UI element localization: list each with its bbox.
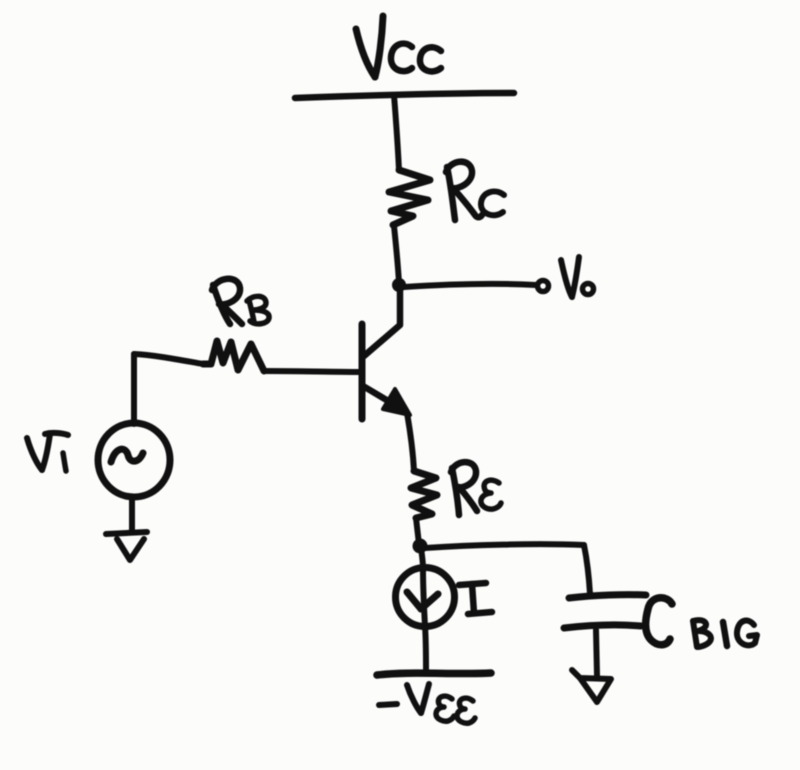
label Rc [446, 162, 504, 220]
wire RE to node E [416, 518, 419, 544]
ground under Vi [106, 532, 147, 560]
wire current source to -VEE rail [425, 626, 426, 670]
transistor Q1 [362, 284, 410, 419]
label RB [212, 279, 269, 324]
wire CBIG to ground [596, 630, 597, 675]
ground under CBIG [572, 670, 611, 702]
label Vo [561, 257, 594, 297]
wire RB to Vi [134, 354, 203, 424]
label Vcc [356, 16, 441, 77]
wire Vi to ground [129, 497, 135, 531]
label -VEE [379, 684, 475, 723]
power rail -VEE [377, 673, 491, 675]
resistor RE [411, 471, 437, 518]
terminal Vo [538, 281, 549, 292]
wire base [264, 371, 362, 372]
current source I [396, 568, 455, 627]
label CBIG [646, 598, 757, 647]
source Vi [98, 423, 170, 497]
resistor Rc [389, 170, 430, 225]
capacitor CBIG [564, 595, 646, 628]
wire Vcc rail to Rc [394, 95, 399, 170]
node E junction [413, 539, 428, 554]
wire node E to capacitor CBIG [425, 544, 590, 594]
label Vi [27, 433, 68, 471]
label RE [451, 462, 501, 515]
wire node C to Vo terminal [404, 284, 536, 287]
power rail Vcc [295, 93, 514, 98]
label I [459, 583, 492, 614]
node C junction [392, 278, 406, 292]
resistor RB [203, 341, 264, 371]
wire Rc to node C [394, 226, 399, 283]
wire node E to current source [421, 548, 423, 568]
wire emitter to RE [407, 413, 414, 471]
